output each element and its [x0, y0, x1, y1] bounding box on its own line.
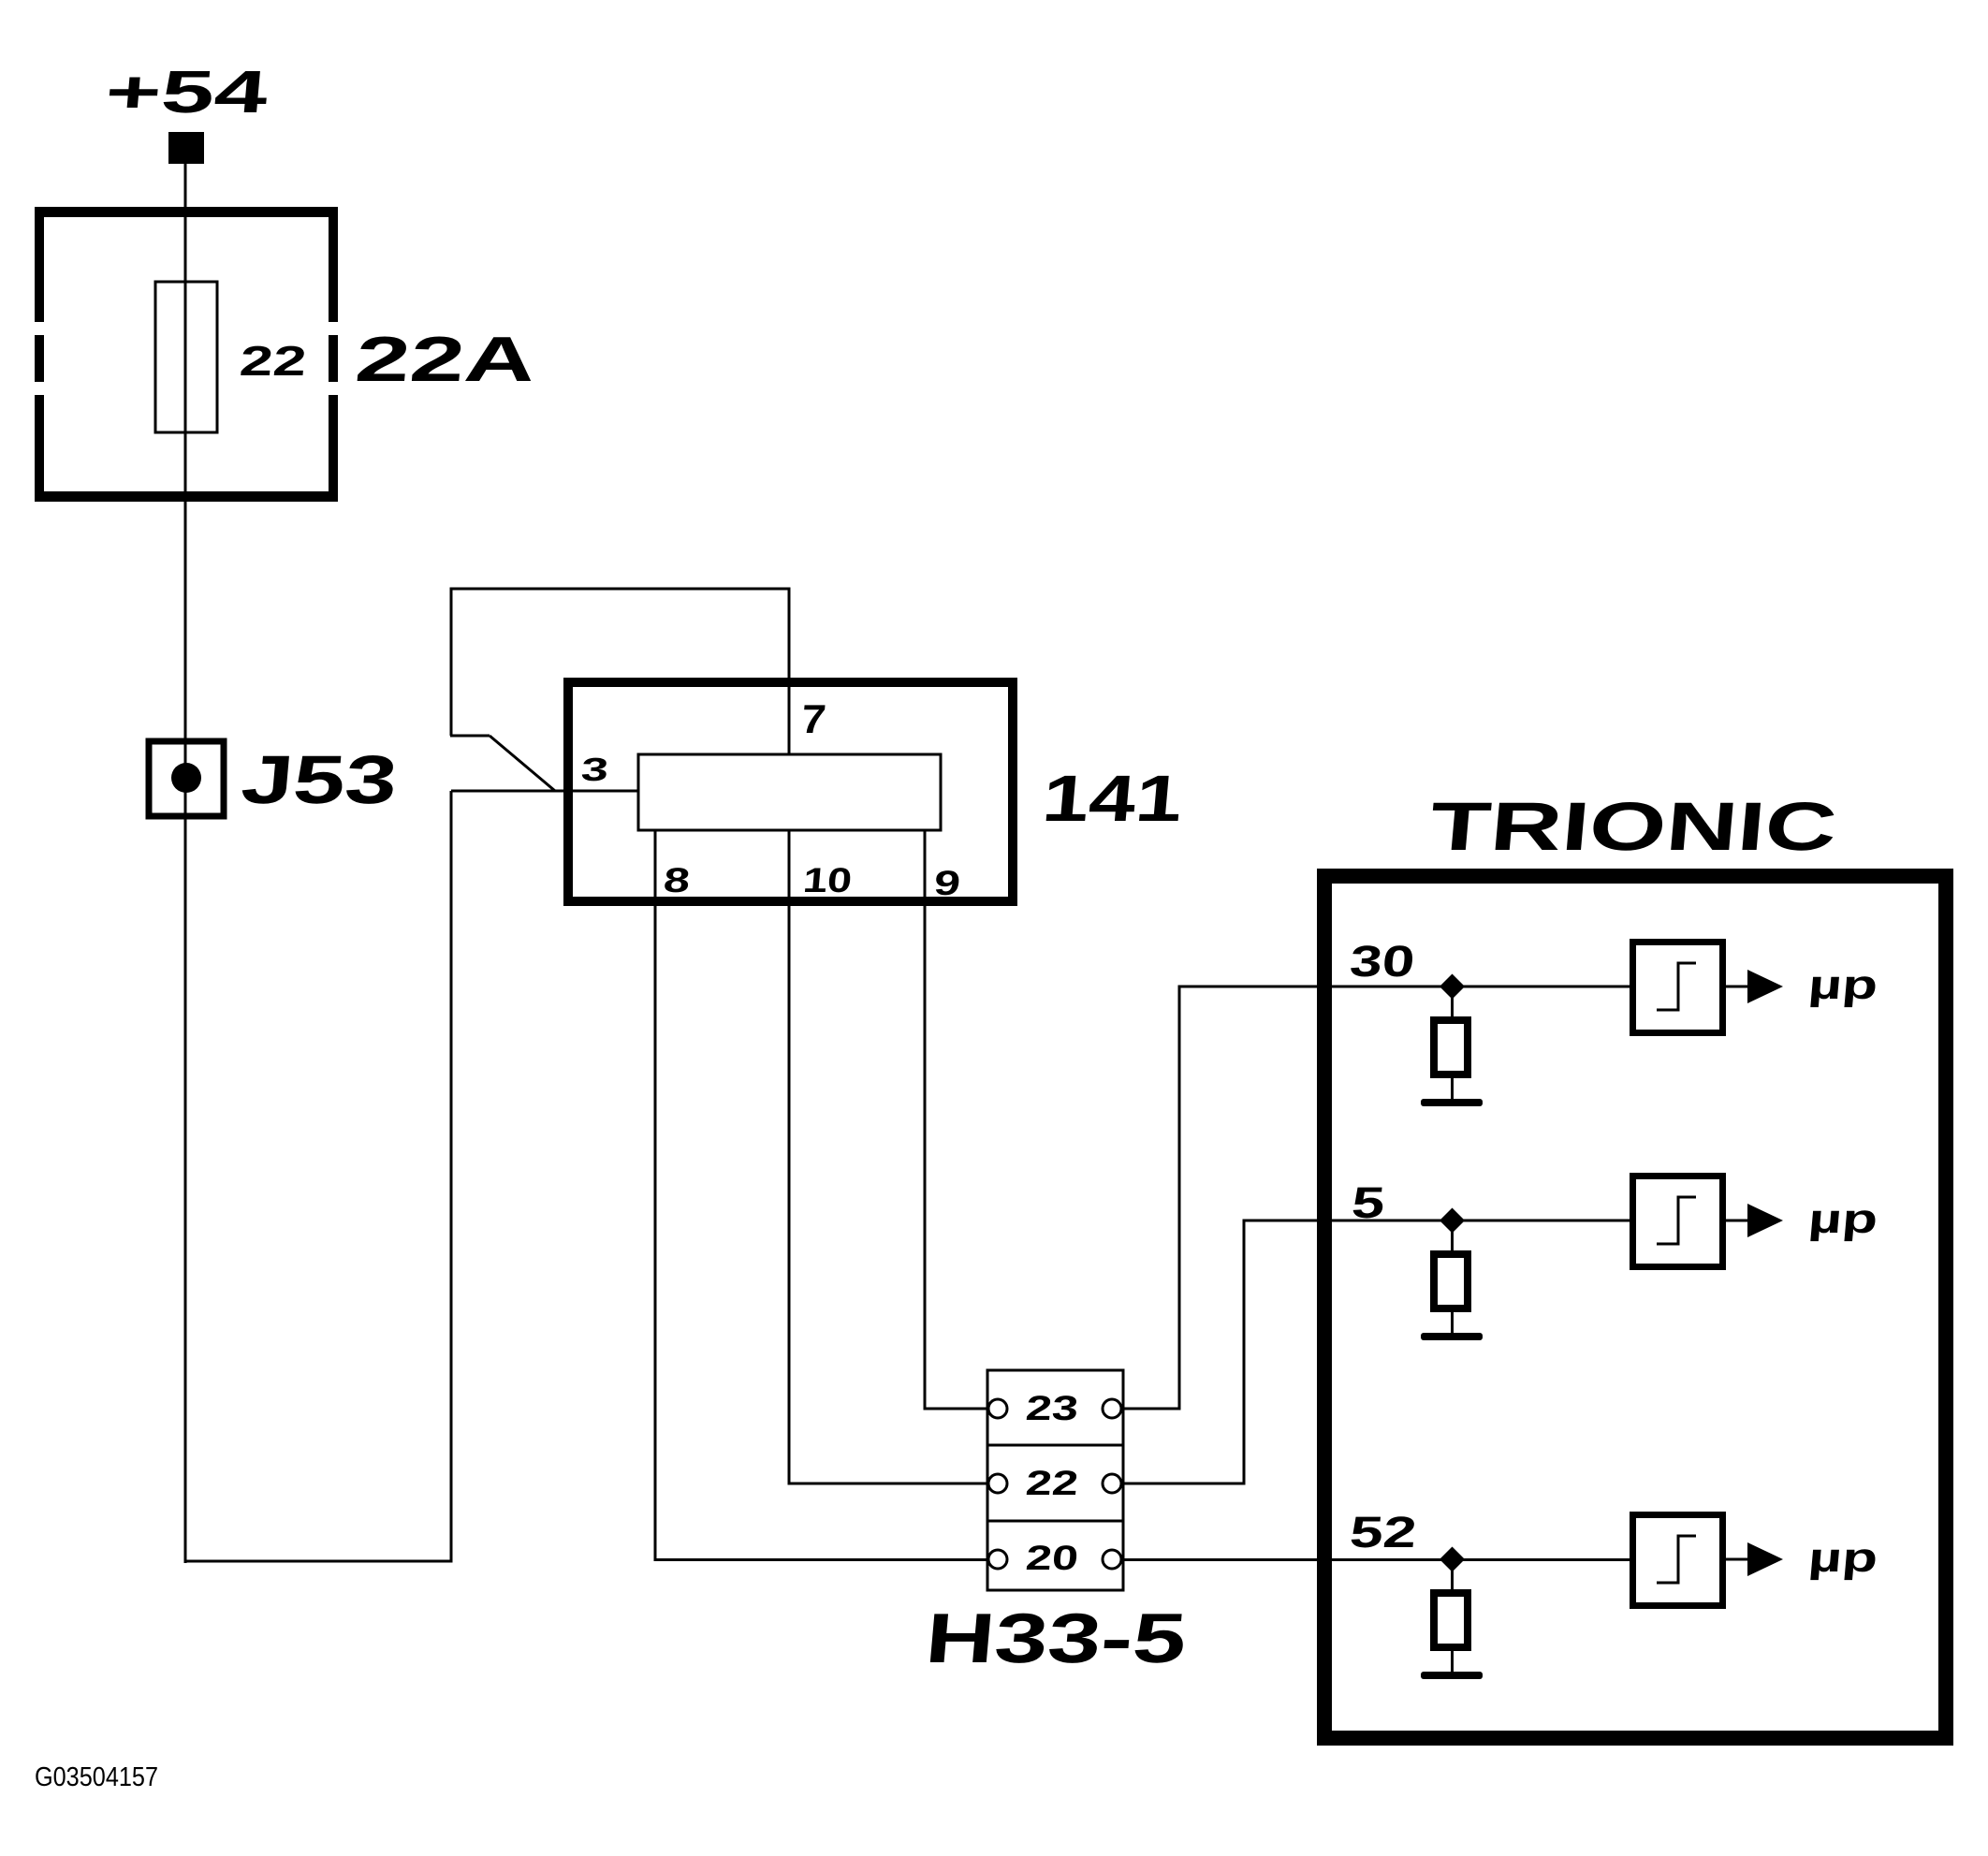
- row 52: comparator step symbol: [1657, 1536, 1696, 1583]
- fuse holder box (dashed): [35, 207, 338, 502]
- svg-text:µp: µp: [1806, 1535, 1879, 1581]
- wire H33-5 20 to TRIONIC 52 horizontal: [1121, 1558, 1631, 1561]
- row 30: label µp: [1806, 962, 1879, 1008]
- H33-5 pin label 22: [1024, 1463, 1080, 1502]
- wire pin7 loop vertical upper: [450, 589, 453, 736]
- row 30: comparator step symbol: [1657, 963, 1696, 1010]
- row 5: arrow: [1747, 1204, 1783, 1237]
- ECU TRIONIC label: [1427, 789, 1840, 865]
- svg-text:10: 10: [801, 860, 854, 899]
- wire pin 8 to H33-5 pin 20: [654, 1558, 989, 1561]
- row 30: junction diamond: [1440, 974, 1465, 1000]
- row 5: comparator box: [1633, 1176, 1723, 1267]
- svg-text:TRIONIC: TRIONIC: [1427, 789, 1840, 865]
- row 5: wire resistor to ground: [1451, 1312, 1454, 1336]
- svg-text:+54: +54: [103, 58, 271, 125]
- component label 141: [1040, 762, 1186, 835]
- wire riser to TRIONIC pin 30: [1178, 986, 1181, 1410]
- wire pin 8 vertical: [654, 830, 657, 1561]
- node +54 terminal square: [168, 132, 204, 164]
- row 30: ground bar: [1421, 1099, 1483, 1106]
- pin label 9: [932, 863, 962, 902]
- svg-text:22: 22: [238, 337, 308, 385]
- wire vertical riser to pin 3: [450, 791, 453, 1563]
- wire pin 3 horizontal: [451, 790, 638, 793]
- connector label H33-5: [923, 1599, 1190, 1677]
- row 52: label µp: [1806, 1535, 1879, 1581]
- H33-5 pin 20 circles: [988, 1550, 1007, 1569]
- pin label 3: [579, 752, 609, 788]
- svg-text:J53: J53: [239, 742, 401, 818]
- row 5: ground bar: [1421, 1333, 1483, 1340]
- wire pin7 loop top horizontal: [450, 588, 791, 591]
- svg-text:7: 7: [799, 697, 827, 742]
- pin label 7: [799, 697, 827, 742]
- wire pin 10 vertical: [788, 830, 791, 1484]
- wire pin 7 vertical: [788, 589, 791, 754]
- row 30: resistor: [1434, 1020, 1468, 1074]
- row 52: comparator box: [1633, 1515, 1723, 1606]
- junction J53 dot: [171, 763, 201, 793]
- wire pin 9 to H33-5 pin 23: [924, 1408, 989, 1410]
- row 5: label µp: [1806, 1196, 1879, 1242]
- row 5: resistor: [1434, 1254, 1468, 1308]
- row 5: comparator step symbol: [1657, 1197, 1696, 1244]
- TRIONIC pin label 5: [1350, 1177, 1387, 1227]
- H33-5 pin 22 circles: [988, 1474, 1007, 1493]
- svg-text:H33-5: H33-5: [923, 1599, 1190, 1677]
- pin label 8: [662, 860, 692, 899]
- row 30: arrow: [1747, 970, 1783, 1003]
- svg-text:22A: 22A: [353, 324, 539, 395]
- wire H33-5 pin 22 out horizontal: [1121, 1483, 1245, 1485]
- TRIONIC pin label 52: [1348, 1507, 1419, 1556]
- row 5: output wire: [1726, 1220, 1749, 1222]
- row 30: output wire: [1726, 986, 1749, 988]
- row 30: comparator box: [1633, 943, 1723, 1033]
- wire TRIONIC pin 5 horizontal: [1243, 1220, 1631, 1222]
- wire bottom horizontal: [184, 1560, 453, 1563]
- svg-text:141: 141: [1040, 762, 1186, 835]
- component 141 box: [568, 682, 1013, 901]
- fuse pin label 22: [238, 337, 308, 385]
- connector H33-5 body: [987, 1370, 1123, 1590]
- row 52: wire to resistor: [1451, 1559, 1454, 1589]
- svg-text:20: 20: [1024, 1538, 1080, 1577]
- TRIONIC pin label 30: [1348, 936, 1417, 986]
- row 52: wire resistor to ground: [1451, 1651, 1454, 1674]
- ECU TRIONIC box: [1324, 876, 1946, 1738]
- svg-text:8: 8: [662, 860, 692, 899]
- row 5: wire to resistor: [1451, 1220, 1454, 1250]
- svg-text:3: 3: [579, 752, 609, 788]
- junction J53 box: [149, 741, 224, 816]
- wire pin 10 to H33-5 pin 22: [788, 1483, 989, 1485]
- svg-text:µp: µp: [1806, 1196, 1879, 1242]
- wire +54 down to junction loop (continuous): [184, 164, 187, 1563]
- svg-text:22: 22: [1024, 1463, 1080, 1502]
- wire TRIONIC pin 30 horizontal: [1178, 986, 1631, 988]
- row 5: junction diamond: [1440, 1208, 1465, 1234]
- row 30: wire to resistor: [1451, 986, 1454, 1016]
- svg-text:52: 52: [1348, 1507, 1419, 1556]
- fuse element 22: [155, 282, 217, 432]
- row 52: resistor: [1434, 1593, 1468, 1647]
- component 141 inner rectangle: [638, 754, 941, 830]
- row 52: junction diamond: [1440, 1547, 1465, 1572]
- wire H33-5 pin 23 out horizontal: [1121, 1408, 1180, 1410]
- connector flag notch at pin 3: [450, 736, 555, 791]
- pin label 10: [801, 860, 854, 899]
- junction J53 label: [239, 742, 401, 818]
- svg-text:5: 5: [1350, 1177, 1387, 1227]
- svg-text:9: 9: [932, 863, 962, 902]
- wire riser to TRIONIC pin 5: [1243, 1220, 1246, 1485]
- row 30: wire resistor to ground: [1451, 1078, 1454, 1102]
- svg-text:23: 23: [1024, 1388, 1080, 1427]
- H33-5 pin label 23: [1024, 1388, 1080, 1427]
- svg-text:30: 30: [1348, 936, 1417, 986]
- fuse label 22A: [353, 324, 539, 395]
- svg-text:G03504157: G03504157: [35, 1762, 158, 1792]
- row 52: arrow: [1747, 1542, 1783, 1576]
- wire pin 9 vertical: [924, 830, 927, 1410]
- row 52: ground bar: [1421, 1672, 1483, 1679]
- H33-5 pin 23 circles: [988, 1399, 1007, 1418]
- row 52: output wire: [1726, 1558, 1749, 1561]
- svg-text:µp: µp: [1806, 962, 1879, 1008]
- H33-5 pin label 20: [1024, 1538, 1080, 1577]
- node +54 label: [103, 58, 271, 125]
